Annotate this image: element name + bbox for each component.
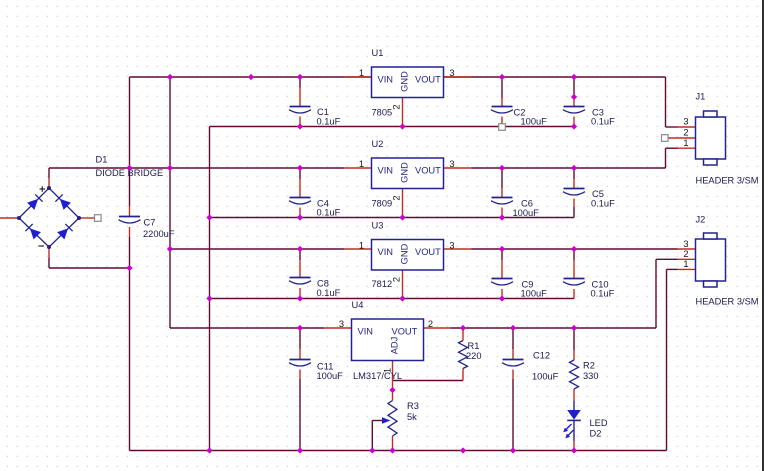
junction at (129.5,168) [126,165,132,171]
svg-text:0.1uF: 0.1uF [591,117,615,127]
svg-text:3: 3 [339,319,344,329]
unconnected pin square right of D1 [95,215,102,222]
capacitor C4 [289,198,311,205]
wire pin stub bottom of C7 [129,227,131,237]
wire net GND into J2 pin 1 [667,268,678,270]
wire pin stub top of R2 [573,350,575,360]
wire net +VIN to U3 VIN [170,248,344,250]
wire net VADJ riser to J2 pin 2 [655,259,657,328]
svg-text:2: 2 [392,277,402,282]
wire wire to C2 [501,77,503,98]
svg-text:0.1uF: 0.1uF [591,289,615,299]
svg-text:2200uF: 2200uF [143,229,175,239]
unconnected pin square at C2 bottom [499,124,506,131]
wire pin stub bottom of C10 [573,289,575,299]
junction at (513,450.5) [510,447,516,453]
svg-text:VIN: VIN [378,247,394,257]
wire net 5V into J1 pin 3 [666,126,678,128]
wire AC pin stub right of D1 [80,217,95,219]
wire pin 2 GND stub of U1 [402,98,404,127]
junction at (502,249) [499,246,505,252]
resistor R2 [570,360,579,389]
junction at (300,450.5) [297,447,303,453]
wire net ADJ R1 bottom to U4 ADJ [393,380,464,382]
diode bridge D1 [17,186,81,249]
capacitor C11 [289,360,311,367]
wire pin 2 GND stub of U3 [402,270,404,299]
wire pin stub cathode of D2 [573,441,575,451]
wire pin stub top of C11 [299,349,301,359]
svg-text:2: 2 [428,319,433,329]
svg-text:U4: U4 [352,300,364,310]
svg-text:VIN: VIN [358,327,374,337]
wire GND rail row 1 [210,126,575,128]
wire pin stub bottom of R3 [392,436,394,451]
wire pin stub bottom of C5 [573,199,575,208]
wire net VADJ into J2 pin 2 [656,258,678,260]
wire net GND below C7 [129,237,131,451]
wire pin + stub of D1 [48,178,50,187]
wire pin stub top of R1 [462,328,464,341]
svg-text:1: 1 [359,159,364,169]
junction at (209.5,298.5) [206,295,212,301]
wire net 5V drop to J1 pin 3 [665,77,667,127]
junction at (463,450.5) [460,447,466,453]
wire pin stub top of C5 [573,179,575,188]
capacitor C5 [563,189,585,196]
svg-text:5k: 5k [407,412,417,422]
wire pin stub bottom of C8 [299,288,301,299]
svg-text:3: 3 [683,239,688,249]
resistor R3 [388,401,397,437]
wire pin stub top of C10 [573,259,575,279]
svg-text:1: 1 [383,368,393,373]
wire pin stub bottom of C3 [573,117,575,127]
wire wire to C11 [299,328,301,349]
wire AC pin stub left of D1 [0,217,18,219]
wire GND vertical bus [209,127,211,451]
wire pin 2 GND stub of U2 [402,189,404,218]
svg-text:100uF: 100uF [521,117,548,127]
wire pin stub bottom of R1 [462,369,464,381]
resistor R1 [459,341,468,369]
junction at (170,168) [167,165,173,171]
svg-text:LM317/CYL: LM317/CYL [353,371,402,381]
diode D1 lower-right [57,228,68,239]
svg-text:3: 3 [449,68,454,78]
svg-text:100uF: 100uF [513,208,540,218]
junction at (392.5,450.5) [389,447,395,453]
wire pin 1 stub of J1 [678,147,696,149]
svg-text:0.1uF: 0.1uF [317,116,341,126]
wire GND bottom rail [130,450,667,452]
svg-text:2: 2 [683,249,688,259]
wire pin 3 stub of U3 [444,248,472,250]
svg-text:U2: U2 [372,139,384,149]
wire pin stub top of C6 [501,187,503,197]
wire pin stub top of C8 [299,259,301,278]
wire wire to C4 [299,168,301,179]
wire net 9V into J1 pin 1 [666,147,678,149]
junction at (574,168) [571,165,577,171]
wire net 9V riser to J1 pin 1 [665,148,667,168]
svg-text:J2: J2 [696,215,706,225]
svg-text:C6: C6 [521,199,533,209]
svg-text:C12: C12 [533,351,550,361]
wire pin 2 stub of J2 [678,258,696,260]
junction at (209.5,217.5) [206,214,212,220]
wire pin stub top of C1 [299,87,301,106]
wire pin 1 stub of U3 [344,248,372,250]
svg-text:7805: 7805 [372,108,393,118]
connector J1 [696,111,726,165]
wire pin stub bottom of C12 [512,370,514,380]
wire pin stub bottom of C2 [501,117,503,124]
wire pin stub top of C4 [299,178,301,197]
svg-text:C7: C7 [144,218,156,228]
wire net +VIN bridge output to U2 VIN [49,167,344,169]
junction at (300,298.5) [297,295,303,301]
svg-text:R3: R3 [407,401,419,411]
wire bridge + terminal riser [48,168,50,178]
svg-text:0.1uF: 0.1uF [317,288,341,298]
svg-text:U3: U3 [372,221,384,231]
wire pin 3 stub of U2 [444,167,472,169]
junction at (300,328) [297,325,303,331]
svg-text:LED: LED [590,418,608,428]
svg-text:0.1uF: 0.1uF [591,199,615,209]
capacitor C7 [119,217,141,224]
wire pin stub bottom of C1 [299,117,301,127]
wire net 12V U3 VOUT to J2 pin 3 [472,248,678,250]
wire pin stub bottom of C11 [299,370,301,380]
svg-text:1: 1 [683,138,688,148]
wire net GND riser to J2 pin 1 [666,269,668,450]
wire net +VIN vertical feed bus [169,77,171,328]
wiper arrow of R3 [382,417,391,424]
wire pin 3 stub of U1 [444,76,472,78]
wire pin 1 stub of U1 [344,76,372,78]
wire GND rail row 2 [210,217,575,219]
svg-text:D1: D1 [96,155,108,165]
svg-text:GND: GND [399,71,409,92]
svg-text:VIN: VIN [378,166,394,176]
wire net +VIN top rail [130,76,666,78]
wire GND rail row 3 [210,298,575,300]
wire pin stub bottom of C4 [299,208,301,218]
light arrow 2 of D2 [567,430,574,437]
junction at (372.3,450.5) [369,447,375,453]
svg-text:R1: R1 [468,341,480,351]
svg-text:330: 330 [583,371,599,381]
wire wire C11 to GND bottom rail [299,379,301,451]
wire net VADJ U4 VOUT rail [451,327,657,329]
wire pin stub bottom of R2 to LED [573,389,575,401]
capacitor C3 [563,107,585,114]
capacitor C6 [491,198,513,205]
junction at (392.5,390) [389,387,395,393]
junction at (170,249) [167,246,173,252]
wire net 9V U2 VOUT to J1 [472,167,666,169]
svg-text:VOUT: VOUT [415,247,441,257]
svg-text:3: 3 [449,241,454,251]
junction at (574,249) [571,246,577,252]
wire wire C12 to GND bottom rail [512,379,514,451]
wire wire to C6 [501,168,503,188]
svg-text:0.1uF: 0.1uF [317,208,341,218]
wire wire to C1 [299,77,301,88]
junction at (463,328) [460,325,466,331]
svg-text:2: 2 [392,104,402,109]
junction at (251,77) [248,74,254,80]
junction at (574,126.5) [571,123,577,129]
regulator U3 [372,240,444,271]
diode D1 upper-right [60,199,71,210]
capacitor C9 [491,279,513,286]
junction at (300,249) [297,246,303,252]
junction at (402.5,126.5) [399,123,405,129]
junction at (209.5,450.5) [206,447,212,453]
junction at (502,77) [499,74,505,80]
capacitor C1 [289,107,311,114]
junction at (300,77) [297,74,303,80]
svg-text:7812: 7812 [372,279,393,289]
wire pin stub top of C9 [501,259,503,279]
wire net +VIN vertical to C7 [129,77,131,206]
svg-text:J1: J1 [696,92,706,102]
diode D1 lower-left [30,228,41,239]
junction at (170,77) [167,74,173,80]
svg-text:C11: C11 [317,362,333,372]
wire pin stub bottom of C6 [501,208,503,218]
wire pin stub top of C12 [512,349,514,359]
wire R3 wiper drop to GND [371,421,373,451]
capacitor C12 [502,360,524,367]
junction at (129.5,268) [126,265,132,271]
junction at (502,217.5) [499,214,505,220]
svg-text:VOUT: VOUT [392,327,418,337]
junction at (513,328) [510,325,516,331]
wire net +VIN to U4 VIN [170,327,324,329]
svg-text:U1: U1 [372,48,384,58]
svg-text:D2: D2 [590,429,602,439]
junction at (574,77) [571,74,577,80]
junction at (574,97) [571,94,577,100]
wire pin stub bottom of C9 [501,289,503,299]
svg-text:100uF: 100uF [532,372,559,382]
wire pin - stub of D1 [48,248,50,258]
junction at (574,328) [571,325,577,331]
svg-text:ADJ: ADJ [390,337,400,355]
diode D1 upper-left [27,199,38,210]
wire bridge - terminal drop [48,258,50,268]
svg-text:VOUT: VOUT [415,166,441,176]
wire pin 3 stub of J1 [678,126,696,128]
regulator U4 [352,319,424,361]
capacitor C8 [289,278,311,285]
svg-text:100uF: 100uF [521,289,548,299]
svg-text:R2: R2 [583,361,595,371]
svg-text:HEADER 3/SM: HEADER 3/SM [696,176,759,186]
svg-text:100uF: 100uF [317,371,344,381]
unconnected pin square at J1 pin 2 [662,135,669,142]
svg-text:2: 2 [392,195,402,200]
wire pin 1 stub of J2 [678,268,696,270]
wire pin 2 stub of J1 [669,137,696,139]
sheet border [762,0,764,471]
svg-text:3: 3 [449,159,454,169]
svg-text:1: 1 [359,241,364,251]
svg-text:220: 220 [466,351,482,361]
svg-text:GND: GND [399,243,409,264]
svg-text:1: 1 [683,259,688,269]
regulator U2 [372,158,444,189]
svg-text:3: 3 [683,117,688,127]
junction at (502,298.5) [499,295,505,301]
junction at (402.5,298.5) [399,295,405,301]
svg-text:2: 2 [683,128,688,138]
svg-text:VIN: VIN [378,75,394,85]
junction at (300,168) [297,165,303,171]
wire wire to C12 [512,328,514,349]
regulator U1 [372,67,444,98]
wire R3 wiper arm [372,420,382,422]
LED D2 [563,401,581,441]
wire pin stub top of C2 [501,97,503,106]
wire pin 3 stub of J2 [678,248,696,250]
wire pin 3 stub of U4 [324,327,352,329]
wire wire to C9 [501,249,503,260]
wire wire to C5 [573,168,575,179]
wire pin 1 ADJ stub of U4 [392,361,394,401]
svg-text:HEADER 3/SM: HEADER 3/SM [696,297,759,307]
svg-text:C5: C5 [592,189,604,199]
wire pin stub top of C3 [573,97,575,106]
junction at (574,450.5) [571,447,577,453]
wire pin 2 stub of U4 [424,327,451,329]
svg-text:7809: 7809 [372,199,393,209]
wire wire C5 to GND rail 2 [573,207,575,218]
svg-text:VOUT: VOUT [415,75,441,85]
connector J2 [696,233,726,287]
junction at (402.5,217.5) [399,214,405,220]
junction at (502,168) [499,165,505,171]
wire wire to C10 [573,249,575,260]
capacitor C2 [491,107,513,114]
wire wire to C8 [299,249,301,260]
wire pin 1 stub of U2 [344,167,372,169]
junction at (300,126.5) [297,123,303,129]
wire wire to C3 [573,77,575,97]
wire net VADJ drop to R2 [573,328,575,350]
svg-text:1: 1 [359,68,364,78]
light arrow 1 of D2 [565,424,572,431]
wire bridge - to GND bus [49,267,130,269]
junction at (300,217.5) [297,214,303,220]
capacitor C10 [563,279,585,286]
wire pin stub top of C7 [129,206,131,216]
svg-text:GND: GND [399,162,409,183]
